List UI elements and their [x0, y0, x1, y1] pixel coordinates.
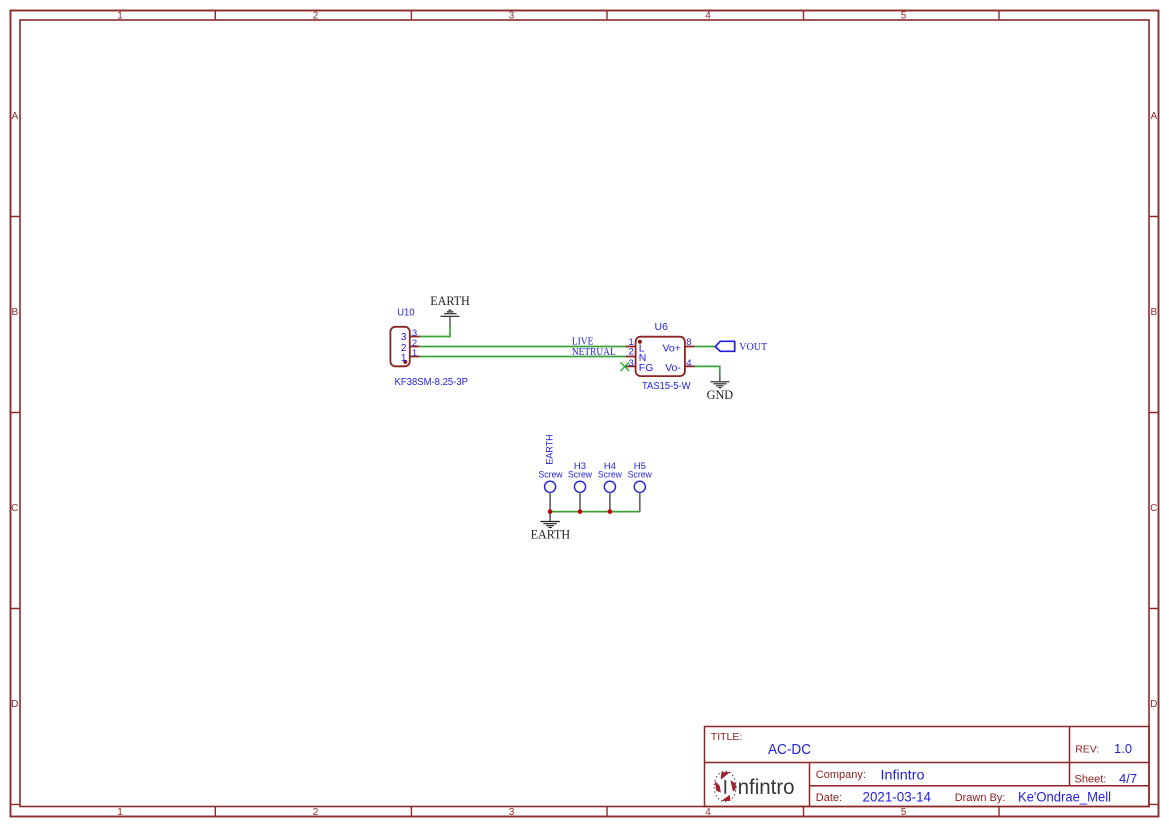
svg-text:Sheet:: Sheet: — [1075, 774, 1107, 786]
svg-text:8: 8 — [686, 337, 691, 348]
svg-text:Screw: Screw — [539, 469, 563, 480]
svg-text:NETRUAL: NETRUAL — [572, 347, 616, 358]
svg-text:Drawn By:: Drawn By: — [955, 792, 1006, 804]
svg-text:FG: FG — [639, 362, 654, 374]
svg-text:B: B — [1150, 307, 1157, 318]
svg-text:D: D — [1150, 699, 1157, 710]
svg-text:AC-DC: AC-DC — [768, 741, 811, 758]
svg-text:nfintro: nfintro — [738, 776, 795, 799]
svg-text:1: 1 — [412, 348, 417, 359]
svg-text:LIVE: LIVE — [572, 336, 594, 347]
svg-text:3: 3 — [509, 807, 515, 818]
svg-text:Company:: Company: — [816, 769, 866, 781]
svg-text:C: C — [1150, 503, 1157, 514]
svg-text:TITLE:: TITLE: — [711, 731, 743, 743]
svg-text:1: 1 — [117, 807, 123, 818]
svg-text:H5: H5 — [634, 461, 646, 472]
svg-text:5: 5 — [901, 807, 907, 818]
svg-text:2021-03-14: 2021-03-14 — [863, 789, 932, 805]
svg-text:H4: H4 — [604, 461, 616, 472]
svg-text:H3: H3 — [574, 461, 586, 472]
svg-text:VOUT: VOUT — [739, 342, 768, 353]
svg-text:Vo+: Vo+ — [662, 343, 680, 355]
svg-text:U6: U6 — [655, 321, 669, 333]
svg-text:3: 3 — [509, 11, 515, 22]
svg-text:1: 1 — [401, 353, 407, 364]
svg-text:Ke'Ondrae_Mell: Ke'Ondrae_Mell — [1018, 790, 1111, 805]
svg-text:EARTH: EARTH — [545, 434, 556, 465]
svg-text:4: 4 — [705, 11, 711, 22]
svg-text:Vo-: Vo- — [665, 362, 681, 374]
svg-text:B: B — [11, 307, 18, 318]
svg-text:EARTH: EARTH — [430, 293, 470, 308]
svg-text:3: 3 — [401, 332, 407, 343]
svg-text:3: 3 — [629, 358, 634, 369]
svg-text:2: 2 — [629, 347, 634, 358]
svg-text:C: C — [11, 503, 18, 514]
svg-text:REV:: REV: — [1075, 744, 1099, 756]
svg-text:GND: GND — [707, 387, 734, 402]
svg-text:EARTH: EARTH — [531, 526, 571, 541]
svg-text:TAS15-5-W: TAS15-5-W — [642, 381, 691, 392]
svg-text:1: 1 — [117, 11, 123, 22]
svg-text:U10: U10 — [397, 307, 414, 319]
svg-text:Infintro: Infintro — [881, 767, 925, 783]
svg-text:4/7: 4/7 — [1119, 771, 1137, 786]
svg-text:A: A — [1150, 111, 1157, 122]
svg-text:Date:: Date: — [816, 792, 842, 804]
svg-text:5: 5 — [901, 11, 907, 22]
svg-text:A: A — [11, 111, 18, 122]
svg-text:1.0: 1.0 — [1114, 741, 1132, 756]
svg-text:4: 4 — [686, 358, 691, 369]
svg-text:KF38SM-8.25-3P: KF38SM-8.25-3P — [395, 377, 469, 388]
svg-text:4: 4 — [705, 807, 711, 818]
svg-text:D: D — [11, 699, 18, 710]
svg-text:2: 2 — [313, 807, 319, 818]
svg-text:2: 2 — [313, 11, 319, 22]
